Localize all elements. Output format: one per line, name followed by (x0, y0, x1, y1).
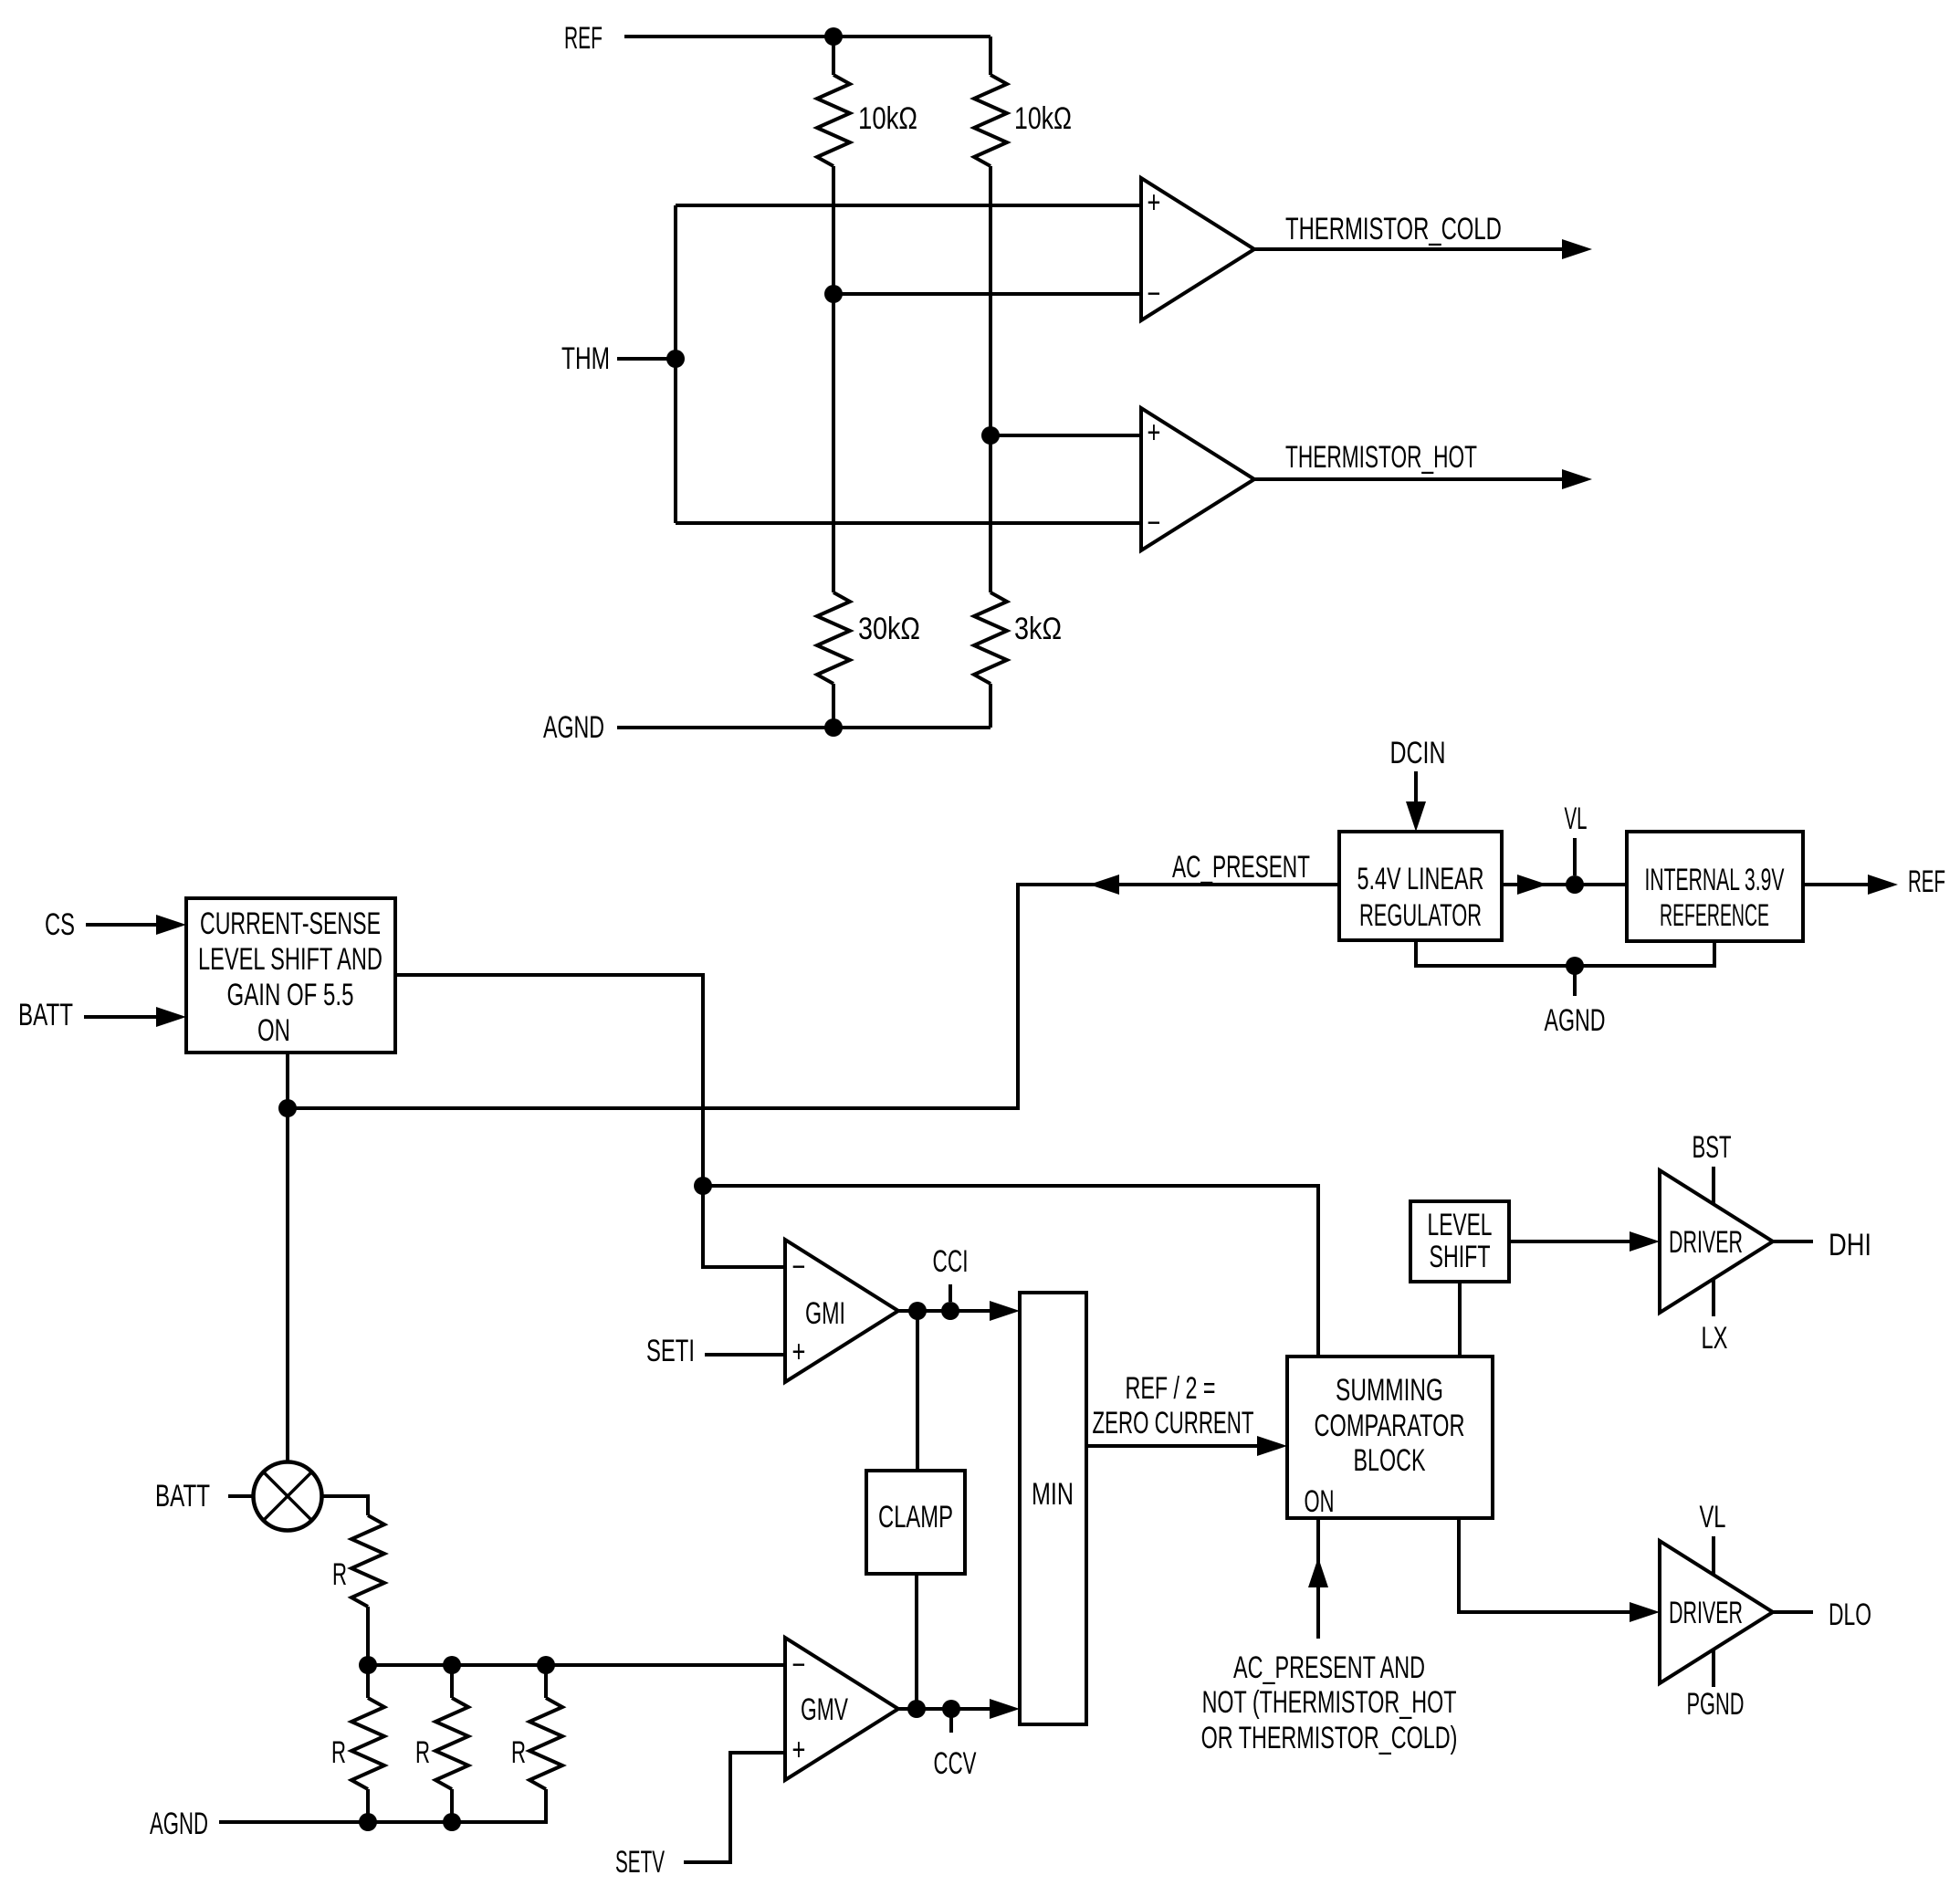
svg-text:CCV: CCV (934, 1746, 978, 1781)
wire R2 bottom stub (366, 1789, 370, 1822)
svg-text:THERMISTOR_COLD: THERMISTOR_COLD (1285, 212, 1502, 246)
wire SETI lead (705, 1353, 785, 1357)
wire DCIN input arrow (1406, 771, 1426, 832)
wire CCI to CLAMP (916, 1311, 919, 1471)
svg-text:AC_PRESENT: AC_PRESENT (1172, 851, 1310, 885)
op-amp GMV (785, 1638, 898, 1780)
resistor R (left) (351, 1698, 384, 1789)
svg-text:ON: ON (1305, 1484, 1335, 1519)
svg-text:DRIVER: DRIVER (1669, 1596, 1743, 1630)
svg-text:3kΩ: 3kΩ (1014, 611, 1062, 646)
wire THERMISTOR_COLD output (1254, 239, 1592, 259)
block 5.4V LINEAR REGULATOR (1339, 832, 1502, 940)
svg-text:BATT: BATT (155, 1479, 210, 1514)
resistor R (middle) (435, 1698, 468, 1789)
op-amp THERMISTOR_HOT comparator (1141, 408, 1254, 550)
svg-text:REFERENCE: REFERENCE (1660, 897, 1769, 932)
svg-text:AC_PRESENT AND: AC_PRESENT AND (1233, 1651, 1425, 1685)
wire enable arrow into summing block (1308, 1518, 1328, 1639)
svg-text:NOT (THERMISTOR_HOT: NOT (THERMISTOR_HOT (1202, 1686, 1457, 1720)
block CURRENT-SENSE LEVEL SHIFT (186, 898, 395, 1053)
wire R3 stub (450, 1665, 454, 1698)
svg-text:AGND: AGND (150, 1807, 208, 1841)
resistor 30kΩ (817, 592, 850, 684)
svg-text:10kΩ: 10kΩ (1014, 101, 1072, 136)
svg-text:SETV: SETV (615, 1845, 665, 1879)
wire AGND return (1416, 940, 1714, 975)
wire 30k bottom stub (832, 684, 835, 728)
svg-text:−: − (792, 1251, 806, 1284)
svg-text:R: R (332, 1557, 347, 1592)
wire 10k resistor stubs (833, 37, 990, 75)
svg-text:+: + (1148, 416, 1161, 450)
wire GMV output CCV (898, 1699, 1020, 1719)
wire VL tick (driver) (1712, 1536, 1715, 1575)
svg-text:REGULATOR: REGULATOR (1359, 898, 1482, 933)
wire left divider mid (832, 166, 835, 592)
svg-text:BATT: BATT (18, 998, 73, 1032)
wire AC_PRESENT net (288, 875, 1339, 1108)
svg-text:INTERNAL 3.9V: INTERNAL 3.9V (1645, 862, 1785, 896)
svg-text:LEVEL: LEVEL (1428, 1209, 1493, 1243)
wire R2 stub (366, 1665, 370, 1698)
svg-text:CURRENT-SENSE: CURRENT-SENSE (200, 907, 381, 941)
wire DHI lead (1773, 1240, 1813, 1243)
wire BATT lead (228, 1494, 254, 1498)
block SUMMING COMPARATOR (1287, 1357, 1493, 1519)
wire REF output arrow (1803, 875, 1898, 895)
svg-text:GMV: GMV (801, 1693, 849, 1728)
svg-text:+: + (792, 1336, 806, 1369)
wire CCV tick (949, 1709, 953, 1733)
svg-text:REF: REF (1908, 864, 1945, 899)
wire current-sense output to GMI - (395, 975, 785, 1267)
svg-text:R: R (415, 1735, 430, 1770)
svg-text:VL: VL (1564, 801, 1587, 836)
svg-text:LEVEL SHIFT AND: LEVEL SHIFT AND (198, 943, 383, 977)
svg-text:AGND: AGND (1545, 1004, 1606, 1038)
wire LX tick (1712, 1279, 1715, 1316)
svg-text:−: − (792, 1649, 806, 1682)
wire MIN output to summing block (1086, 1436, 1287, 1456)
svg-text:PGND: PGND (1687, 1687, 1745, 1722)
wire AGND rail (bottom) (219, 1789, 546, 1831)
op-amp DRIVER (high side) (1660, 1170, 1773, 1313)
wire CS input arrow (86, 915, 186, 935)
block INTERNAL 3.9V REFERENCE (1627, 832, 1803, 941)
svg-text:DRIVER: DRIVER (1669, 1225, 1743, 1260)
svg-text:AGND: AGND (543, 711, 604, 745)
node FB rail to GMV - (359, 1656, 785, 1674)
svg-text:THM: THM (561, 341, 610, 376)
svg-text:SUMMING: SUMMING (1336, 1373, 1443, 1408)
wire ON net vertical (278, 1053, 297, 1461)
svg-text:BST: BST (1693, 1130, 1732, 1165)
wire GMI output CCI (898, 1301, 1020, 1321)
svg-text:OR THERMISTOR_COLD): OR THERMISTOR_COLD) (1201, 1722, 1458, 1755)
resistor R (top of string) (351, 1515, 384, 1607)
wire level shift to driver DHI (1509, 1231, 1660, 1252)
svg-text:CCI: CCI (933, 1245, 969, 1280)
wire R4 stub (544, 1665, 548, 1698)
wire DLO lead (1773, 1610, 1813, 1614)
op-amp THERMISTOR_COLD comparator (1141, 178, 1254, 320)
resistor 10kΩ (left divider) (817, 75, 850, 166)
wire AGND rail (top) (617, 718, 990, 737)
wire THM lead (617, 350, 685, 368)
wire regulator output VL (1502, 875, 1627, 895)
svg-text:BLOCK: BLOCK (1354, 1444, 1426, 1478)
wire CCI tick (949, 1284, 952, 1302)
svg-text:DLO: DLO (1829, 1598, 1871, 1633)
svg-text:R: R (331, 1735, 346, 1770)
node comparator COLD - input (824, 285, 1141, 303)
wire right divider mid (989, 166, 992, 592)
svg-text:REF: REF (564, 20, 603, 56)
resistor 10kΩ (right divider) (974, 75, 1007, 166)
wire THERMISTOR_HOT output (1254, 469, 1592, 489)
svg-text:REF / 2 =: REF / 2 = (1126, 1372, 1216, 1406)
svg-text:VL: VL (1700, 1500, 1726, 1535)
wire BST tick (1712, 1167, 1715, 1204)
svg-text:5.4V LINEAR: 5.4V LINEAR (1357, 863, 1484, 896)
block MIN (1020, 1293, 1086, 1724)
wire VL tick (1573, 838, 1577, 875)
wire comparator HOT - input (676, 521, 1141, 525)
op-amp GMI (785, 1240, 898, 1382)
svg-text:GAIN OF 5.5: GAIN OF 5.5 (227, 978, 354, 1012)
svg-text:MIN: MIN (1032, 1477, 1074, 1512)
svg-text:LX: LX (1702, 1321, 1728, 1356)
svg-text:DCIN: DCIN (1390, 736, 1446, 770)
wire BATT input arrow (84, 1007, 186, 1027)
svg-text:ZERO CURRENT: ZERO CURRENT (1093, 1406, 1254, 1440)
wire summing to driver DLO (1459, 1518, 1660, 1622)
svg-text:SHIFT: SHIFT (1430, 1241, 1491, 1274)
wire comparator COLD + input (676, 204, 1141, 207)
svg-text:ON: ON (257, 1013, 290, 1048)
wire R bottom stub (366, 1607, 370, 1665)
wire R3 bottom stub (450, 1789, 454, 1822)
svg-text:−: − (1148, 278, 1161, 311)
block LEVEL SHIFT (1410, 1201, 1509, 1282)
wire AGND tick (1573, 966, 1577, 996)
wire node to summing comparator (703, 1186, 1318, 1357)
wire level shift to summing (1458, 1282, 1462, 1357)
node REF (top rail) (624, 27, 990, 46)
svg-text:+: + (1148, 186, 1161, 220)
resistor 3kΩ (974, 592, 1007, 684)
op-amp DRIVER (low side) (1660, 1541, 1773, 1683)
svg-text:CLAMP: CLAMP (878, 1500, 953, 1535)
svg-text:COMPARATOR: COMPARATOR (1315, 1409, 1465, 1443)
resistor R (right) (529, 1698, 562, 1789)
wire multiplier to R top (322, 1496, 369, 1515)
wire 3k bottom stub (989, 684, 992, 728)
svg-text:CS: CS (45, 907, 75, 942)
wire PGND tick (1712, 1650, 1715, 1687)
svg-text:30kΩ: 30kΩ (858, 611, 920, 646)
multiplier (circle-X) (254, 1462, 322, 1531)
svg-text:+: + (792, 1734, 806, 1767)
svg-text:SETI: SETI (646, 1334, 695, 1368)
svg-text:GMI: GMI (805, 1297, 845, 1331)
wire CLAMP to CCV (915, 1574, 918, 1709)
svg-text:DHI: DHI (1829, 1227, 1871, 1262)
svg-text:THERMISTOR_HOT: THERMISTOR_HOT (1285, 441, 1477, 476)
svg-text:10kΩ: 10kΩ (858, 100, 917, 135)
svg-text:−: − (1148, 507, 1161, 540)
node comparator HOT + input (981, 426, 1141, 445)
block CLAMP (866, 1471, 965, 1574)
svg-text:R: R (511, 1735, 526, 1770)
wire SETV lead (684, 1753, 785, 1862)
wire THM vertical bus (674, 205, 677, 523)
